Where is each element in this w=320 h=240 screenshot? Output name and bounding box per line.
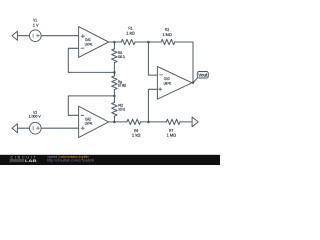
ground G1 (left, top) xyxy=(12,31,17,40)
junction node Vout xyxy=(192,82,194,84)
wire OA3 output xyxy=(192,82,193,84)
wire Rl2 to bottom rail xyxy=(113,116,115,122)
ground G3 (right) xyxy=(192,117,198,127)
Vout flag xyxy=(197,72,208,79)
resistor R6 xyxy=(127,119,141,124)
svg-text:1 MΩ: 1 MΩ xyxy=(167,133,177,138)
resistor R2 xyxy=(161,39,175,44)
wire OA2 output to R6 xyxy=(109,121,127,123)
resistor Rg xyxy=(112,76,117,90)
wire ground G2 to V2 xyxy=(17,127,29,129)
op-amp OA1 xyxy=(79,27,109,58)
svg-text:100 Ω: 100 Ω xyxy=(118,108,125,112)
junction node D xyxy=(113,95,116,98)
svg-text:LAB: LAB xyxy=(25,158,37,163)
footer bar xyxy=(0,154,220,165)
wire OA3 + input loop to bottom rail xyxy=(148,89,157,122)
op-amp OA2 xyxy=(79,106,109,137)
wire OA1 output to node A and R1 xyxy=(109,41,122,43)
voltage source V1 xyxy=(30,30,42,42)
svg-text:http://circuitlab.com/c/7pq4jh: http://circuitlab.com/c/7pq4jh8 xyxy=(47,159,94,163)
svg-text:1 MΩ: 1 MΩ xyxy=(163,32,172,37)
ground G2 (left, bottom) xyxy=(12,124,17,133)
resistor R7 xyxy=(166,119,180,124)
op-amp OA3 xyxy=(157,67,192,100)
svg-text:OA2: OA2 xyxy=(85,116,91,121)
wire ground G1 to V1 xyxy=(17,35,29,37)
wire Rg to node D xyxy=(113,90,115,103)
resistor Rl2 xyxy=(112,103,117,117)
junction node C xyxy=(113,71,116,74)
wire V1 to OA1 + input xyxy=(41,35,79,37)
svg-text:1 V: 1 V xyxy=(33,22,39,27)
wire node B to OA3 - input xyxy=(148,42,157,75)
wire V2 to OA2 + input xyxy=(41,127,79,129)
wire R2 to OA3 output node xyxy=(175,42,193,83)
svg-text:OA1: OA1 xyxy=(85,37,91,42)
svg-text:100 Ω: 100 Ω xyxy=(118,55,125,59)
wire OA1 feedback loop to node C xyxy=(68,48,114,72)
svg-text:LM741: LM741 xyxy=(164,82,172,86)
wire Rl1 to node C xyxy=(113,63,115,76)
svg-text:10 MΩ: 10 MΩ xyxy=(118,84,126,88)
resistor R1 xyxy=(121,39,135,44)
resistor Rl1 xyxy=(112,49,117,63)
voltage source V2 xyxy=(30,122,42,134)
wire R1 to node B xyxy=(135,41,148,43)
svg-text:1 kΩ: 1 kΩ xyxy=(132,133,141,138)
wire node A down xyxy=(113,42,115,49)
wire OA2 feedback loop from node D xyxy=(68,96,114,115)
wire R6 to bottom node xyxy=(141,121,167,123)
svg-text:1.000 V: 1.000 V xyxy=(29,114,42,118)
node Vout flag tail xyxy=(193,78,197,83)
svg-text:Vout: Vout xyxy=(198,72,208,77)
junction node E xyxy=(113,121,116,124)
wire node B to R2 xyxy=(148,41,161,43)
junction node A xyxy=(113,41,116,44)
junction node B xyxy=(147,41,150,44)
svg-text:LM741: LM741 xyxy=(85,122,93,126)
svg-text:OA3: OA3 xyxy=(164,76,170,81)
svg-text:LM741: LM741 xyxy=(85,43,93,47)
wire R7 to ground G3 xyxy=(180,121,192,123)
svg-text:1 kΩ: 1 kΩ xyxy=(126,31,135,36)
junction node F xyxy=(147,121,150,124)
CircuitLab logo lines xyxy=(10,159,25,161)
